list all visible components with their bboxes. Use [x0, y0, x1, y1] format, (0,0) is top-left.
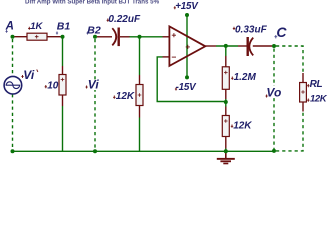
svg-text:B2: B2	[87, 24, 101, 36]
svg-text:10: 10	[47, 81, 59, 92]
svg-text:1.2M: 1.2M	[234, 72, 257, 83]
svg-text:Vo: Vo	[266, 86, 281, 100]
svg-text:12K: 12K	[233, 120, 252, 131]
svg-text:-15V: -15V	[176, 82, 198, 93]
svg-text:RL: RL	[310, 79, 323, 90]
svg-text:0.22uF: 0.22uF	[108, 14, 141, 25]
svg-text:12K: 12K	[116, 91, 135, 102]
svg-text:B1: B1	[57, 20, 71, 32]
svg-text:1K: 1K	[30, 21, 43, 32]
svg-text:+15V: +15V	[175, 1, 199, 12]
svg-text:A: A	[5, 21, 14, 33]
svg-text:Diff Amp With Super Beta Input: Diff Amp With Super Beta Input BJT Trans…	[25, 0, 160, 5]
svg-text:Vi: Vi	[23, 68, 35, 82]
svg-text:Vi: Vi	[88, 78, 100, 92]
svg-text:C: C	[276, 24, 287, 40]
svg-text:12K: 12K	[310, 94, 328, 105]
svg-text:0.33uF: 0.33uF	[235, 24, 268, 35]
